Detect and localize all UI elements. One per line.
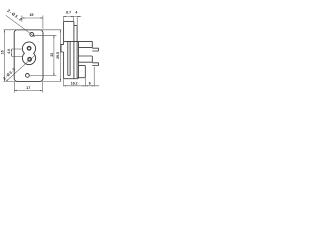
arrow dim29.5 top xyxy=(60,30,61,33)
svg-text:16.2: 16.2 xyxy=(71,81,78,85)
dim 4 right extension xyxy=(76,16,78,25)
arrow dim4 right outside xyxy=(77,16,80,17)
arrow dim15 right xyxy=(40,17,43,18)
side view flange back edge xyxy=(76,25,78,77)
dim 16 line left xyxy=(3,30,5,82)
arrow dim16.2 right xyxy=(83,85,86,86)
dim 16.2 left extension xyxy=(63,79,65,87)
dim 16.2 and 6 line xyxy=(64,85,100,87)
side view internal slot right xyxy=(69,41,71,75)
terminal 1 lug xyxy=(79,41,93,47)
side view body bottom edge xyxy=(64,78,79,80)
dim 4.6 bottom extension xyxy=(12,55,23,57)
side view internal slot left xyxy=(67,41,69,75)
dim 15 line xyxy=(22,17,43,19)
dim 6.7 right extension xyxy=(73,16,75,21)
mounting hole top xyxy=(30,33,34,37)
dim 6.7 and 4 line xyxy=(63,15,81,17)
bottom edge extension line both sides xyxy=(4,80,62,82)
side view flange top edge xyxy=(74,24,77,26)
dim 22 top extension xyxy=(34,34,57,36)
leader line pin callout xyxy=(6,55,35,81)
arrow dim15 left xyxy=(22,17,25,18)
dim 22 line xyxy=(53,35,55,75)
arrow dim17 left xyxy=(14,90,16,91)
mounting hole bottom xyxy=(26,74,30,78)
arrow leader pin callout xyxy=(6,79,8,81)
arrow leader hole callout xyxy=(33,35,35,37)
terminal 2 solder tab xyxy=(92,63,98,66)
arrow dim6 right xyxy=(92,85,95,86)
arrow dim16.2 left xyxy=(64,85,67,86)
svg-text:2-Ø3.2: 2-Ø3.2 xyxy=(6,8,23,22)
svg-text:4.6: 4.6 xyxy=(7,49,11,54)
arrow dim4.6 bottom xyxy=(11,54,12,56)
figure-8 socket recess outline xyxy=(22,42,35,65)
dim 15 right extension xyxy=(42,16,44,29)
svg-text:29.5: 29.5 xyxy=(56,52,60,59)
svg-text:17: 17 xyxy=(26,86,30,90)
dim 4.6 line xyxy=(11,49,13,56)
side view internal slot bottom xyxy=(68,74,70,76)
terminal 2 lug xyxy=(79,56,93,62)
dim 6.7 left extension xyxy=(62,16,64,21)
side view rear block right edge xyxy=(84,66,86,78)
arrow dim16 bottom xyxy=(4,79,5,82)
arrow dim6.7 right xyxy=(71,16,74,17)
svg-text:16: 16 xyxy=(0,50,4,54)
leader line hole callout xyxy=(6,15,35,37)
svg-text:6: 6 xyxy=(89,81,91,85)
arrow dim22 bottom xyxy=(53,73,54,76)
arrow dim16 top xyxy=(4,30,5,33)
dim 15 left extension xyxy=(21,16,23,22)
side view front boss bump xyxy=(61,45,64,52)
dim 17 line xyxy=(14,90,42,92)
top edge extension line both sides xyxy=(4,29,62,31)
side view internal shelf and terminal 1 top xyxy=(64,40,93,42)
arrow dim6 left xyxy=(85,85,88,86)
side view terminal block face xyxy=(78,41,80,77)
dim 29.5 line xyxy=(59,30,61,82)
dim 6 right extension xyxy=(93,67,95,87)
arrow dim29.5 bottom xyxy=(60,79,61,82)
svg-text:6.7: 6.7 xyxy=(66,11,71,15)
side view body left edge lower xyxy=(63,52,65,79)
dim 4.6 top extension xyxy=(12,48,22,50)
arrow dim17 right xyxy=(40,90,43,91)
dim 17 left extension xyxy=(13,82,15,93)
svg-text:15: 15 xyxy=(29,13,33,17)
svg-text:4: 4 xyxy=(75,11,77,15)
side view rear ledge bottom xyxy=(77,77,85,79)
dim 22 bottom extension xyxy=(30,75,57,77)
arrow dim4.6 top xyxy=(11,49,12,51)
dim 16.2 right extension xyxy=(84,78,86,87)
side view body left edge upper xyxy=(63,21,65,44)
dim 17 right extension xyxy=(41,82,43,93)
side view body top edge xyxy=(64,20,74,22)
side view body right edge xyxy=(73,21,75,78)
contact pin bottom xyxy=(28,58,32,62)
front view flange plate xyxy=(14,30,43,82)
side view rear block top xyxy=(79,65,86,67)
terminal 1 solder tab xyxy=(92,48,98,51)
arrow dim22 top xyxy=(53,35,54,38)
arrow dim6.7 left xyxy=(63,16,66,17)
svg-text:22: 22 xyxy=(50,53,54,57)
